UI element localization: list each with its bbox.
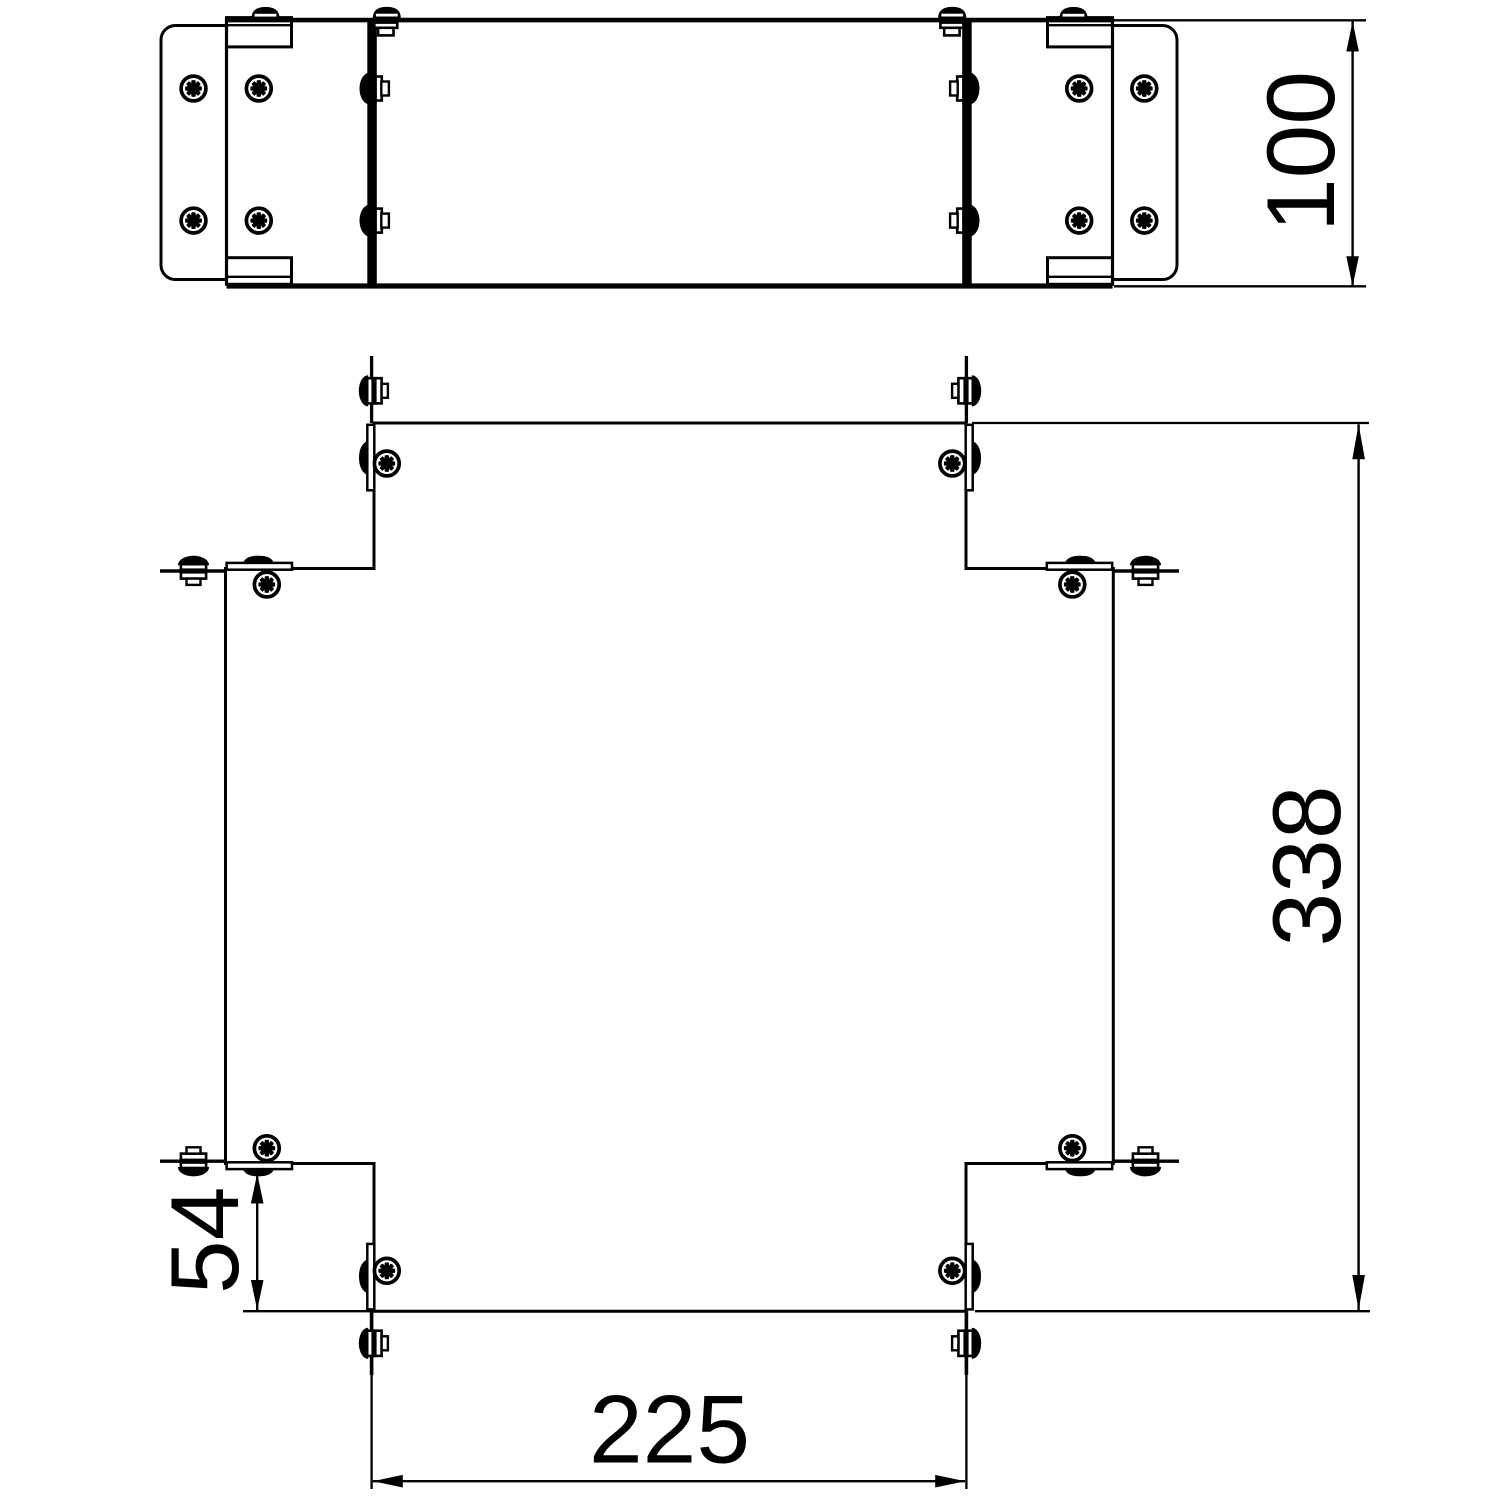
side view: left coupler bottom tab [227, 258, 292, 285]
dimension 100: bottom arrowhead [1346, 256, 1359, 286]
side view: torx screw end cap right bottom [1132, 208, 1157, 233]
plan view: top-left stub line [370, 356, 373, 423]
plan view: left upper stub line [160, 569, 226, 572]
plan view: right upper stub line [1113, 569, 1179, 572]
plan view: clamp screw on top-right stub [952, 375, 981, 406]
side view: left coupler cover plate [228, 17, 292, 285]
plan view: bottom-right connector bar [966, 1244, 981, 1310]
dimension 338: bottom extension line [975, 1310, 1370, 1312]
plan view: bottom-left stub line [370, 1311, 374, 1375]
side view: left side-rail post [367, 20, 377, 287]
side view: torx screw coupler left top [246, 76, 271, 101]
plan view: lower-left step connector bar [227, 1162, 292, 1176]
dimension 225: left extension line [370, 1375, 372, 1489]
side view: torx screw coupler right bottom [1067, 208, 1092, 233]
dimension 100: top extension line [1114, 19, 1366, 21]
side view: bolt head on right tab [1060, 7, 1088, 18]
dimension 225: dimension line [373, 1480, 965, 1482]
side view: clamp screw lower on left rail post [360, 205, 389, 237]
dimension 338: top arrowhead [1352, 424, 1365, 459]
plan view: clamp screw on bottom-right stub [952, 1328, 981, 1359]
dimension 100: dimension line [1351, 22, 1353, 287]
plan view: top-right stub line [965, 356, 968, 423]
plan view: clamp screw on right upper stub [1130, 556, 1161, 585]
side view: right coupler top tab [1048, 18, 1113, 47]
side view: right coupler edge [1111, 18, 1114, 285]
side view: torx screw end cap right top [1132, 76, 1157, 101]
side view: torx screw coupler right top [1067, 76, 1092, 101]
plan view: bottom-right stub line [965, 1311, 969, 1375]
plan view: left lower stub line [160, 1159, 226, 1162]
dimension 338: bottom arrowhead [1352, 1275, 1365, 1310]
dimension 338: text label [1254, 785, 1361, 946]
side view: top rail edge line [227, 18, 1113, 23]
svg-text:338: 338 [1254, 785, 1361, 946]
dimension 100: text label [1248, 71, 1355, 232]
dimension 225: right extension line [965, 1375, 967, 1489]
plan view: bottom-left connector bar [359, 1244, 374, 1310]
dimension 338: top extension line [972, 422, 1369, 424]
side view: right end cap [1078, 26, 1177, 280]
plan view: torx screw bottom-left [374, 1258, 399, 1283]
plan view: torx screw lower-right step [1060, 1136, 1085, 1161]
plan view: cross body outline [226, 423, 1114, 1311]
side view: right coupler bottom tab [1048, 258, 1113, 285]
dimension 100: top arrowhead [1346, 22, 1359, 52]
dimension 100: bottom extension line [1114, 285, 1366, 287]
plan view: clamp screw on right lower stub [1130, 1147, 1161, 1176]
plan view: upper-right step connector bar [1047, 556, 1112, 570]
plan view: torx screw bottom-right [940, 1258, 965, 1283]
dimension 225: right arrowhead [935, 1475, 965, 1488]
side view: clamp screw upper on right rail post [950, 73, 979, 105]
side view: bottom rail edge line [227, 283, 1113, 288]
svg-text:225: 225 [589, 1377, 750, 1484]
plan view: clamp screw on bottom-left stub [359, 1328, 388, 1359]
plan view: torx screw upper-left step [254, 572, 279, 597]
side view: right side-rail post [962, 20, 972, 287]
dimension 54: bottom arrowhead [251, 1280, 264, 1310]
plan view: clamp screw on left upper stub [178, 556, 209, 585]
plan view: clamp screw on top-left stub [359, 375, 388, 406]
dimension 54: text label [152, 1187, 259, 1294]
side view: bolt head on left tab [252, 7, 280, 18]
plan view: torx screw lower-left step [254, 1136, 279, 1161]
side view: left coupler edge [225, 18, 228, 285]
plan view: top-right connector bar [966, 425, 981, 491]
dimension 225: text label [589, 1377, 750, 1484]
plan view: lower-right step connector bar [1047, 1162, 1112, 1176]
side view: torx screw coupler left bottom [246, 208, 271, 233]
side view: left end cap [161, 26, 260, 280]
side view: nut below right rail post bolt [940, 23, 963, 36]
dimension 225: left arrowhead [373, 1475, 403, 1488]
svg-text:54: 54 [152, 1187, 259, 1294]
plan view: right lower stub line [1113, 1159, 1179, 1162]
plan view: torx screw top-left [374, 451, 399, 476]
side view: clamp screw lower on right rail post [950, 205, 979, 237]
side view: left coupler top tab [227, 18, 292, 47]
side view: bolt head on right rail post [938, 7, 966, 18]
plan view: upper-left step connector bar [227, 556, 292, 570]
svg-text:100: 100 [1248, 71, 1355, 232]
plan view: torx screw top-right [940, 451, 965, 476]
side view: torx screw end cap left bottom [181, 208, 206, 233]
side view: bolt head on left rail post [373, 7, 401, 18]
dimension 54: dimension line [256, 1174, 258, 1311]
plan view: top-left connector bar [359, 425, 374, 491]
dimension 338: dimension line [1357, 424, 1359, 1310]
plan view: clamp screw on left lower stub [178, 1147, 209, 1176]
side view: torx screw end cap left top [181, 76, 206, 101]
side view: right coupler cover plate [1048, 17, 1112, 285]
side view: clamp screw upper on left rail post [360, 73, 389, 105]
dimension 54: bottom extension line [243, 1310, 380, 1312]
dimension 54: top arrowhead [251, 1174, 264, 1204]
plan view: torx screw upper-right step [1060, 572, 1085, 597]
side view: nut below left rail post bolt [374, 23, 397, 36]
